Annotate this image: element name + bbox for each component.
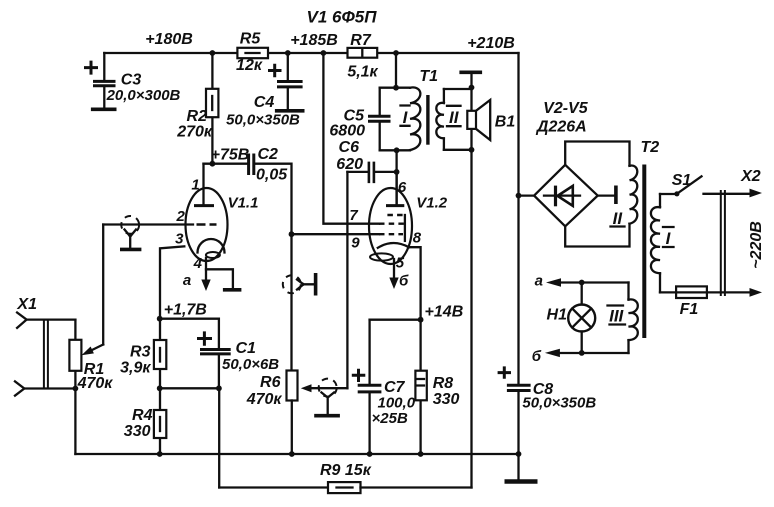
wire +185V screen feed to pin 7 [323, 53, 379, 224]
svg-text:8: 8 [413, 229, 422, 246]
wire +14V node [370, 319, 421, 321]
svg-text:R9 15к: R9 15к [320, 462, 372, 479]
svg-text:Н1: Н1 [547, 306, 568, 323]
transformer T2 winding III [608, 283, 638, 354]
wire from R1 wiper to grid [102, 225, 104, 345]
wire T1 primary to V1.2 anode [395, 150, 397, 204]
capacitor C4 [226, 53, 303, 129]
screen grid g2 of V1.2 (pin 7) [349, 207, 404, 224]
wire bottom ground rail [75, 453, 518, 455]
resistor R9 [219, 462, 471, 493]
svg-text:R2: R2 [187, 108, 208, 125]
fuse F1 [660, 286, 750, 318]
wire +75V node [204, 163, 248, 165]
svg-text:С4: С4 [254, 94, 275, 111]
mains cable double line [721, 190, 725, 296]
svg-text:R7: R7 [350, 32, 372, 49]
svg-text:20,0×300В: 20,0×300В [106, 87, 181, 104]
svg-text:6: 6 [398, 179, 407, 196]
svg-text:С7: С7 [384, 379, 406, 396]
connector X2 lower arrow [750, 288, 763, 297]
svg-text:С1: С1 [236, 340, 257, 357]
svg-text:+180В: +180В [145, 31, 193, 48]
resistor R4 [124, 388, 167, 454]
core of T2 [642, 165, 646, 339]
svg-text:R8: R8 [433, 375, 454, 392]
wire R6 wiper to C6 [346, 172, 348, 388]
resistor R5 [236, 31, 268, 75]
capacitor C3 [84, 53, 181, 107]
tube pentode V1.2 [369, 188, 448, 264]
svg-text:270к: 270к [176, 124, 213, 141]
tube label V1 6Ф5П [307, 8, 378, 27]
capacitor C7 [352, 320, 416, 454]
svg-text:V1.2: V1.2 [416, 195, 448, 212]
svg-text:50,0×350В: 50,0×350В [226, 112, 300, 129]
svg-text:+185В: +185В [290, 32, 338, 49]
node +185V label [290, 32, 338, 49]
svg-text:III: III [609, 307, 624, 326]
shielded wire symbol at V1.1 grid [121, 216, 139, 248]
transformer T1 secondary winding II [436, 89, 471, 150]
svg-text:+210В: +210В [467, 35, 515, 52]
capacitor C5 [329, 88, 390, 151]
svg-text:С2: С2 [258, 146, 279, 163]
svg-text:+75В: +75В [211, 147, 250, 164]
cathode of V1.2 (pin 8) [370, 229, 422, 319]
wire bridge top AC to T2 winding II [565, 142, 629, 166]
svg-text:2: 2 [176, 208, 186, 225]
svg-text:T1: T1 [419, 68, 438, 85]
node +75V [211, 147, 250, 164]
svg-text:II: II [449, 108, 460, 127]
anode of V1.1 (pin 1) [191, 164, 214, 206]
switch S1 [660, 172, 750, 196]
resistor R3 [120, 319, 166, 389]
ground chassis bar of shield 2 [314, 273, 318, 296]
svg-text:~220В: ~220В [748, 221, 765, 269]
svg-text:7: 7 [349, 207, 358, 224]
svg-text:470к: 470к [246, 391, 283, 408]
svg-text:T2: T2 [640, 139, 659, 156]
arrow b to heater [532, 348, 560, 365]
svg-text:а: а [535, 273, 543, 290]
svg-text:3: 3 [175, 231, 184, 248]
label 220V mains [748, 221, 765, 269]
shielded wire symbol at R6 wiper [319, 379, 337, 414]
svg-text:9: 9 [351, 235, 360, 252]
heater pin 4 of V1.1 with arrow a [183, 255, 211, 291]
wire grid line of V1.1 [103, 223, 193, 225]
svg-text:12к: 12к [236, 57, 263, 74]
speaker B1 [467, 89, 515, 150]
svg-text:V1.1: V1.1 [228, 195, 259, 212]
svg-text:С3: С3 [121, 72, 142, 89]
svg-text:S1: S1 [672, 172, 692, 189]
transformer T2 winding I [651, 194, 674, 292]
svg-text:В1: В1 [495, 114, 516, 131]
suppressor grid g3 of V1.2 [387, 215, 405, 241]
capacitor C2 [249, 146, 292, 234]
svg-text:50,0×6В: 50,0×6В [222, 356, 279, 373]
svg-text:470к: 470к [77, 375, 114, 392]
wire R3 R4 junction to C1 and feedback [160, 388, 219, 487]
ground chassis bar under C4 [275, 109, 305, 113]
wire bridge right to chassis [598, 194, 614, 196]
transformer T2 winding II [611, 139, 660, 228]
capacitor C1 [197, 331, 279, 388]
wire +210V bus down right side [517, 53, 519, 384]
wire winding III bottom to arrow b [560, 352, 629, 354]
wire speaker to R9 feedback [470, 150, 472, 488]
node +180V label [145, 31, 193, 48]
resistor R7 [347, 32, 378, 81]
ground chassis bar above speaker [459, 72, 482, 89]
svg-text:X1: X1 [16, 296, 37, 313]
potentiometer R6 [246, 371, 348, 455]
svg-text:100,0: 100,0 [378, 395, 416, 412]
core of T1 [426, 95, 429, 145]
svg-text:620: 620 [336, 156, 363, 173]
svg-text:R6: R6 [260, 374, 281, 391]
svg-text:R3: R3 [130, 344, 151, 361]
svg-text:330: 330 [124, 423, 151, 440]
svg-text:3,9к: 3,9к [120, 360, 151, 377]
wire C2 output to V1.2 grid pin 9 [292, 233, 380, 235]
svg-text:С6: С6 [339, 139, 360, 156]
tube triode V1.1 [186, 188, 259, 261]
svg-text:0,05: 0,05 [256, 167, 288, 184]
shielded wire symbol at R6 top [283, 234, 314, 370]
svg-text:II: II [613, 209, 624, 228]
ground chassis bar of shield 3 [314, 414, 340, 418]
resistor R8 [415, 320, 459, 454]
svg-text:X2: X2 [740, 168, 761, 185]
svg-text:50,0×350В: 50,0×350В [522, 395, 596, 412]
capacitor C6 [336, 139, 396, 183]
ground chassis bar of shield 1 [120, 248, 141, 252]
wire bridge bottom AC to T2 winding II [565, 224, 629, 247]
svg-text:4: 4 [193, 255, 203, 272]
svg-text:6800: 6800 [329, 123, 365, 140]
svg-text:5,1к: 5,1к [347, 64, 378, 81]
wire winding III top to arrow a [560, 281, 629, 283]
svg-text:1: 1 [191, 177, 199, 194]
heater pin 5 of V1.2 with arrow b [389, 255, 409, 290]
arrow a to heater [535, 273, 561, 290]
svg-text:б: б [532, 348, 542, 365]
ground chassis bar at bridge [614, 186, 618, 205]
ground of heater V1.1 [206, 269, 241, 290]
cathode of V1.1 (pin 3) [160, 231, 225, 319]
svg-text:330: 330 [433, 391, 460, 408]
svg-text:а: а [183, 272, 191, 289]
svg-text:+14В: +14В [425, 304, 464, 321]
diode bridge V2-V5 Д226А [519, 100, 598, 226]
svg-text:R5: R5 [240, 31, 262, 48]
anode of V1.2 (pin 6) [386, 172, 407, 206]
node +1.7V [164, 302, 207, 319]
control grid g1 of V1.2 (pin 9) [351, 234, 403, 251]
svg-text:5: 5 [396, 255, 405, 272]
transformer T1 primary winding I [380, 53, 438, 150]
capacitor C8 [498, 366, 597, 454]
svg-text:×25В: ×25В [372, 410, 408, 427]
connector X2 upper arrow [740, 168, 762, 197]
svg-text:Д226А: Д226А [535, 119, 587, 136]
resistor R2 [176, 53, 218, 164]
potentiometer R1 [69, 320, 113, 454]
svg-text:+1,7В: +1,7В [164, 302, 207, 319]
node +210V label [467, 35, 515, 52]
node +14V [425, 304, 464, 321]
ground chassis bar under C3 [91, 108, 117, 112]
wire +180V top rail [104, 52, 518, 54]
svg-text:V1 6Ф5П: V1 6Ф5П [307, 8, 378, 27]
svg-text:R4: R4 [132, 407, 153, 424]
grid of V1.1 (pin 2) [176, 208, 217, 225]
connector X1 [15, 296, 75, 396]
wire +1.7V node to C1 [160, 319, 219, 348]
svg-text:F1: F1 [680, 301, 699, 318]
lamp H1 [547, 283, 596, 354]
ground symbol main [505, 454, 538, 482]
svg-text:V2-V5: V2-V5 [543, 100, 589, 117]
svg-text:б: б [399, 272, 409, 289]
